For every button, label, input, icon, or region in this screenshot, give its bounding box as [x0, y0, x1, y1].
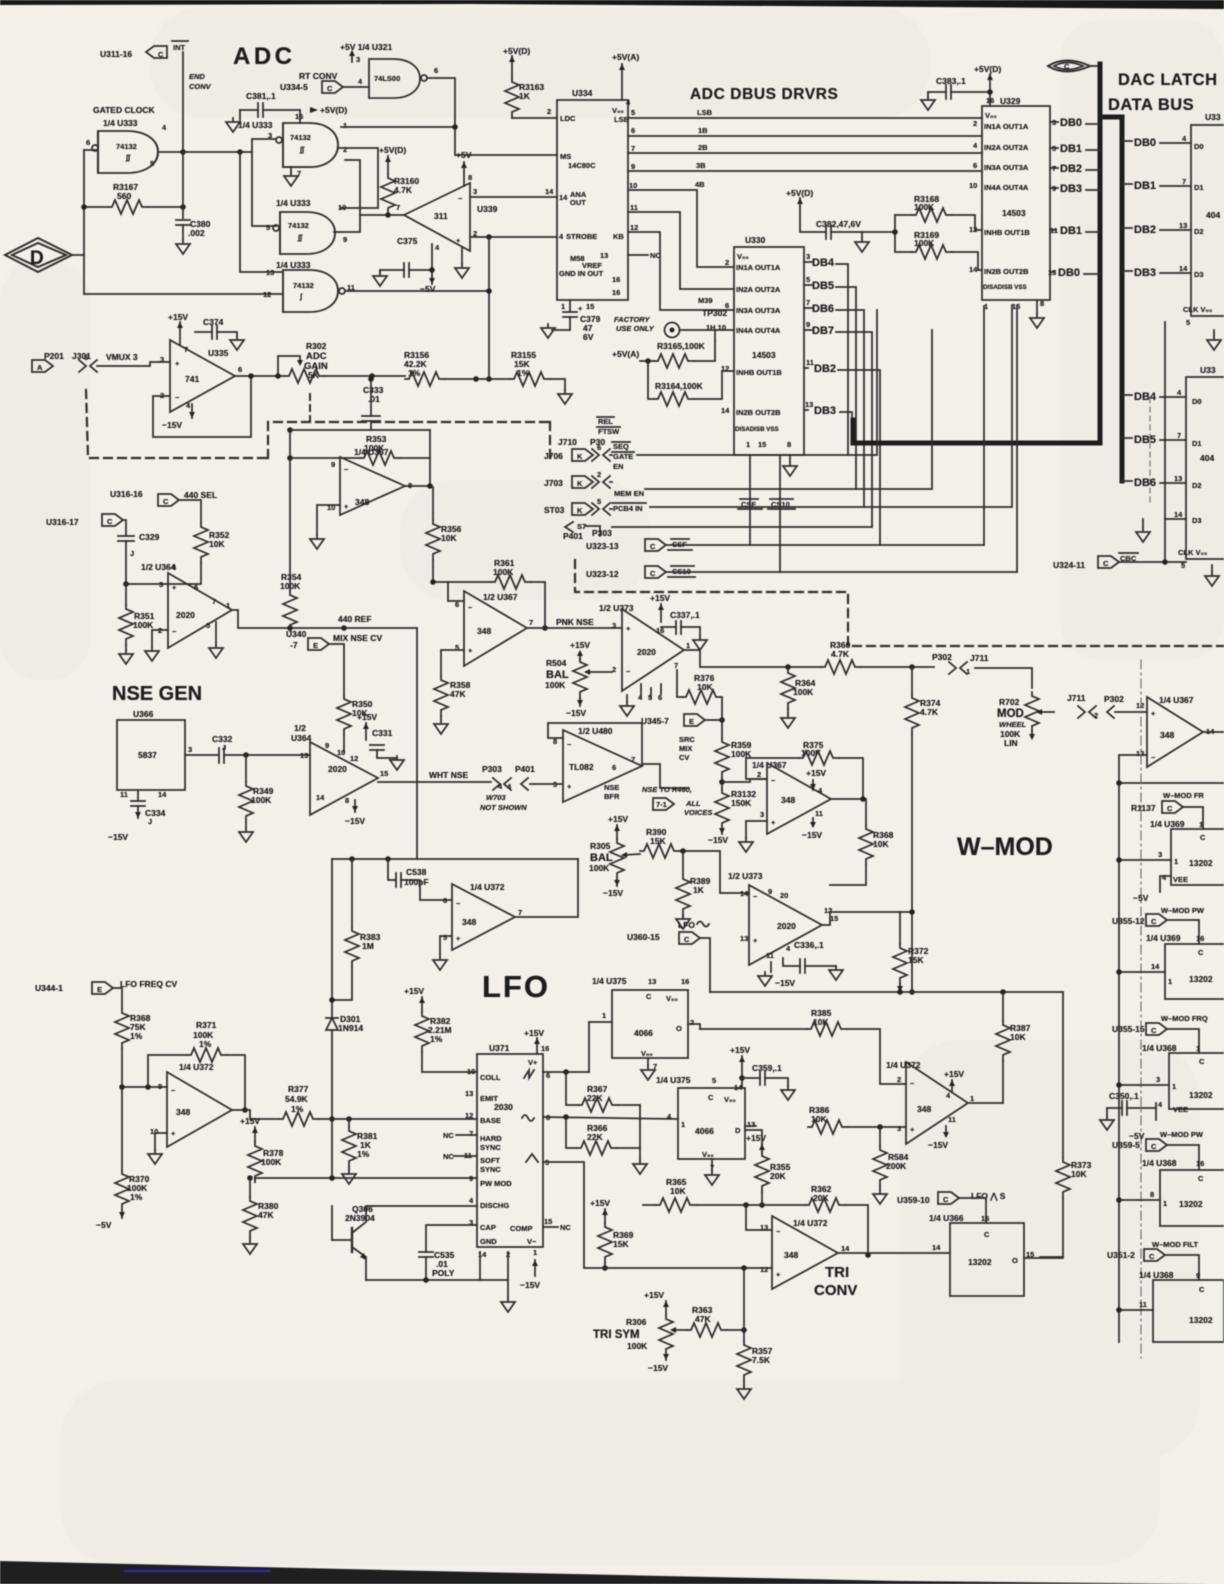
svg-text:4: 4 — [469, 1196, 474, 1205]
svg-text:−: − — [468, 603, 473, 612]
svg-text:47K: 47K — [258, 1210, 274, 1220]
svg-text:+5V 1/4 U321: +5V 1/4 U321 — [340, 42, 392, 52]
ground U372a — [155, 1133, 167, 1150]
wire to +in — [97, 362, 170, 366]
svg-text:1/2 U367: 1/2 U367 — [483, 592, 518, 602]
wire TRI out — [838, 1252, 950, 1254]
svg-text:5: 5 — [206, 621, 210, 630]
svg-text:348: 348 — [462, 917, 476, 927]
svg-text:R302: R302 — [306, 341, 327, 351]
wire row4 input — [1119, 1199, 1160, 1201]
capacitor C538 — [388, 859, 396, 880]
svg-text:IN1A OUT1A: IN1A OUT1A — [984, 122, 1029, 131]
svg-text:3: 3 — [1156, 1075, 1160, 1084]
svg-text:LSB: LSB — [697, 108, 713, 117]
svg-text:NC: NC — [443, 1152, 454, 1161]
svg-text:5: 5 — [150, 159, 154, 168]
svg-text:14: 14 — [841, 1244, 850, 1253]
wire gate2 pin1 to U334 — [341, 126, 455, 128]
wire bus 2B — [628, 152, 982, 154]
svg-text:−15V: −15V — [566, 708, 586, 718]
svg-text:IN3A OUT3A: IN3A OUT3A — [736, 306, 781, 315]
svg-text:CONV: CONV — [814, 1282, 857, 1299]
svg-text:GATE: GATE — [613, 452, 633, 461]
svg-text:C538: C538 — [406, 867, 427, 877]
svg-text:−15V: −15V — [162, 420, 182, 430]
svg-text:1/4 U369: 1/4 U369 — [1146, 933, 1181, 943]
wire -in rail down — [1119, 755, 1147, 1342]
svg-text:7: 7 — [631, 144, 635, 153]
ground C375 — [379, 270, 381, 272]
svg-text:+: + — [1151, 709, 1156, 718]
svg-text:10: 10 — [337, 748, 345, 757]
svg-text:DISADISB VSS: DISADISB VSS — [983, 284, 1027, 291]
wire WHT NSE — [378, 781, 491, 783]
wire DB0 row — [1122, 140, 1132, 142]
svg-text:D0: D0 — [1192, 397, 1202, 406]
svg-text:IN3A OUT3A: IN3A OUT3A — [984, 163, 1029, 172]
feedback rail U367a — [290, 429, 430, 431]
svg-text:14: 14 — [932, 1243, 941, 1252]
svg-text:13: 13 — [600, 251, 608, 260]
svg-text:4: 4 — [786, 944, 791, 953]
svg-text:D: D — [30, 248, 44, 269]
IC 13202 row4 — [1160, 1170, 1224, 1226]
svg-text:+: + — [626, 624, 631, 633]
svg-text:C: C — [107, 517, 113, 526]
svg-text:7: 7 — [1052, 164, 1056, 173]
svg-text:J711: J711 — [970, 653, 989, 663]
svg-text:13: 13 — [1048, 268, 1056, 277]
svg-text:C: C — [1167, 804, 1173, 813]
svg-text:1: 1 — [1163, 1199, 1167, 1208]
resistor R368b — [115, 1009, 129, 1049]
svg-text:V₀₀: V₀₀ — [985, 111, 997, 120]
svg-text:C382,47,6V: C382,47,6V — [816, 219, 861, 229]
svg-text:DB2: DB2 — [1134, 224, 1156, 236]
svg-text:8: 8 — [1040, 299, 1044, 308]
svg-text:C331: C331 — [372, 728, 393, 738]
wire U335 out — [235, 375, 285, 377]
svg-text:E: E — [313, 641, 318, 650]
svg-text:2: 2 — [597, 470, 601, 479]
svg-text:5: 5 — [806, 275, 810, 284]
svg-text:2: 2 — [612, 665, 616, 674]
resistor R371 — [148, 1055, 187, 1087]
svg-text:U316-17: U316-17 — [46, 517, 79, 527]
svg-text:11: 11 — [815, 809, 823, 818]
svg-text:5: 5 — [443, 933, 447, 942]
svg-text:15K: 15K — [613, 1239, 629, 1249]
node D — [5, 238, 72, 272]
svg-text:5: 5 — [266, 223, 270, 232]
svg-text:8: 8 — [1150, 1190, 1154, 1199]
wire row3 input — [1119, 1084, 1169, 1086]
svg-text:12: 12 — [760, 1265, 768, 1274]
bottom band blue mark — [125, 1570, 270, 1572]
svg-text:1/4 U333: 1/4 U333 — [276, 198, 311, 208]
svg-text:DB1: DB1 — [1060, 225, 1082, 237]
svg-text:W703: W703 — [486, 793, 506, 802]
wire DB3 row — [1122, 270, 1132, 272]
svg-text:C350,.1: C350,.1 — [1109, 1091, 1139, 1101]
wire gate4 out — [345, 290, 489, 292]
resistor R584 — [879, 1127, 881, 1146]
svg-text:+15V: +15V — [240, 1116, 260, 1126]
resistor R356 — [432, 487, 434, 520]
svg-text:+: + — [172, 583, 177, 592]
svg-text:−: − — [910, 1079, 915, 1088]
svg-text:10K: 10K — [697, 682, 713, 692]
svg-text:P201: P201 — [44, 351, 64, 361]
svg-text:FACTORY: FACTORY — [614, 315, 651, 324]
power +5V into U321 — [351, 52, 353, 62]
wire D to rail — [72, 254, 84, 256]
gate U333a 74132 — [98, 131, 158, 173]
svg-text:13202: 13202 — [1189, 1090, 1213, 1100]
wire in4a — [714, 330, 716, 341]
svg-text:DB7: DB7 — [812, 325, 834, 337]
svg-text:10: 10 — [338, 203, 346, 212]
svg-text:LDC: LDC — [560, 114, 576, 123]
wire COLL to 4066a — [543, 1071, 589, 1073]
svg-text:END: END — [189, 72, 205, 81]
svg-text:348: 348 — [477, 626, 491, 636]
resistor R3167 — [84, 206, 108, 208]
svg-text:6: 6 — [194, 583, 198, 592]
svg-text:FTSW: FTSW — [598, 427, 620, 436]
svg-text:J706: J706 — [544, 451, 563, 461]
svg-text:8: 8 — [468, 173, 472, 182]
svg-text:3: 3 — [760, 810, 764, 819]
svg-text:U334-5: U334-5 — [280, 82, 308, 92]
svg-text:7: 7 — [396, 203, 400, 212]
svg-text:14503: 14503 — [752, 350, 776, 360]
svg-text:PNK NSE: PNK NSE — [556, 617, 594, 627]
capacitor C535 — [426, 1225, 477, 1252]
node DB7 — [804, 329, 812, 331]
svg-text:100K: 100K — [261, 1157, 282, 1167]
svg-text:6: 6 — [443, 896, 447, 905]
resistor R364 — [781, 669, 795, 709]
svg-text:R3165,100K: R3165,100K — [657, 341, 706, 351]
svg-text:+15V: +15V — [168, 312, 188, 322]
top scan bar — [0, 0, 1224, 9]
svg-text:MIX NSE CV: MIX NSE CV — [333, 633, 382, 643]
svg-text:1: 1 — [1174, 857, 1178, 866]
power -15V U335 — [191, 404, 193, 418]
svg-text:1: 1 — [746, 440, 750, 449]
wire U329 DB0b out — [1050, 271, 1054, 273]
svg-text:C: C — [1151, 1026, 1157, 1035]
wire -in to ground — [152, 630, 168, 647]
svg-text:+15V: +15V — [524, 1028, 544, 1038]
svg-text:R1137: R1137 — [1131, 803, 1156, 813]
svg-text:WHEEL: WHEEL — [999, 720, 1027, 729]
svg-text:V₀₀: V₀₀ — [666, 994, 678, 1003]
svg-text:+: + — [753, 936, 758, 945]
svg-text:5K: 5K — [308, 370, 320, 380]
svg-text:1/4 U366: 1/4 U366 — [929, 1213, 964, 1223]
svg-text:+: + — [468, 646, 473, 655]
svg-text:5: 5 — [1181, 561, 1185, 570]
svg-text:+5V(D): +5V(D) — [786, 188, 813, 198]
svg-text:+15V: +15V — [570, 640, 590, 650]
svg-text:MIX: MIX — [679, 744, 692, 753]
svg-text:V₀₀: V₀₀ — [641, 1049, 653, 1058]
svg-text:16: 16 — [1196, 934, 1204, 943]
node DB3 out2b — [804, 409, 808, 411]
svg-text:DB3: DB3 — [1060, 183, 1082, 195]
svg-text:TP302: TP302 — [702, 308, 727, 318]
power -15V U364b — [354, 800, 356, 812]
resistor R372 — [899, 912, 901, 944]
wire DB5 row — [1122, 437, 1132, 439]
svg-text:EN: EN — [613, 462, 623, 471]
svg-text:14: 14 — [545, 187, 554, 196]
svg-text:VEE: VEE — [1173, 1105, 1188, 1114]
svg-text:C: C — [984, 1230, 990, 1239]
wire gate4 in13 — [240, 152, 283, 272]
svg-text:+15V: +15V — [746, 1133, 766, 1143]
svg-text:100K: 100K — [793, 687, 814, 697]
wire to gain rail — [488, 237, 490, 379]
dashed gain box — [309, 394, 311, 422]
svg-text:D1: D1 — [1194, 183, 1204, 192]
node DB6 — [804, 307, 812, 309]
svg-text:2: 2 — [1094, 711, 1098, 720]
capacitor C380 — [182, 152, 184, 218]
wire bus 1B — [628, 135, 982, 137]
wire +in rail — [543, 1162, 772, 1268]
svg-text:DB1: DB1 — [1134, 180, 1156, 192]
svg-text:404: 404 — [1206, 210, 1220, 220]
resistor R359 — [715, 738, 729, 778]
svg-text:100K: 100K — [545, 680, 566, 690]
svg-text:+5V(A): +5V(A) — [612, 52, 639, 62]
svg-text:74LS00: 74LS00 — [374, 74, 400, 83]
svg-text:−15V: −15V — [708, 835, 728, 845]
svg-text:P303: P303 — [482, 764, 502, 774]
svg-text:4: 4 — [172, 563, 177, 572]
svg-text:5: 5 — [1186, 318, 1190, 327]
svg-text:DB3: DB3 — [814, 405, 836, 417]
power arrow below U332 — [1211, 565, 1213, 572]
svg-text:−: − — [771, 776, 776, 785]
svg-text:J: J — [130, 549, 134, 558]
wire U366 out — [185, 754, 218, 756]
wire bus LSB — [628, 117, 982, 119]
svg-text:C336,.1: C336,.1 — [794, 940, 824, 950]
svg-text:7: 7 — [1182, 177, 1186, 186]
wire U329 DB2 out — [1050, 167, 1058, 169]
svg-text:348: 348 — [176, 1107, 190, 1117]
svg-text:7: 7 — [1177, 431, 1181, 440]
svg-text:2020: 2020 — [328, 764, 347, 774]
svg-text:R702: R702 — [999, 697, 1020, 707]
wire 440 REF — [232, 610, 417, 628]
wire +in ground — [317, 505, 340, 535]
svg-text:MOD: MOD — [997, 708, 1024, 720]
resistor R375 feedback — [746, 758, 799, 779]
svg-text:2N3904: 2N3904 — [345, 1213, 375, 1223]
svg-text:1: 1 — [602, 1011, 606, 1020]
svg-text:DB6: DB6 — [1134, 477, 1156, 489]
svg-text:W–MOD: W–MOD — [957, 833, 1053, 861]
connector S7 P401 — [565, 522, 573, 532]
svg-text:1/4 U372: 1/4 U372 — [179, 1062, 214, 1072]
svg-text:22K: 22K — [587, 1132, 603, 1142]
svg-text:2: 2 — [973, 119, 977, 128]
svg-text:DB1: DB1 — [1060, 143, 1082, 155]
svg-text:10K: 10K — [1010, 1032, 1026, 1042]
wire — [445, 378, 510, 380]
svg-text:150K: 150K — [731, 798, 752, 808]
node DB2 out1b — [804, 367, 808, 369]
svg-text:100pF: 100pF — [404, 877, 429, 887]
svg-text:4: 4 — [1162, 873, 1167, 882]
svg-text:1%: 1% — [130, 1031, 143, 1041]
svg-text:D2: D2 — [1194, 227, 1204, 236]
svg-text:3: 3 — [806, 252, 810, 261]
svg-text:SYNC: SYNC — [480, 1165, 501, 1174]
svg-text:9: 9 — [158, 1082, 162, 1091]
svg-text:KB: KB — [613, 232, 624, 241]
resistor R367 — [566, 1072, 578, 1105]
svg-text:DAC LATCH: DAC LATCH — [1118, 71, 1218, 89]
svg-text:U371: U371 — [489, 1043, 510, 1053]
svg-text:13: 13 — [648, 977, 656, 986]
svg-text:3: 3 — [1158, 850, 1162, 859]
wire U373a out to W-MOD rail — [684, 650, 821, 667]
svg-text:4066: 4066 — [695, 1126, 714, 1136]
capacitor C379 — [569, 300, 571, 312]
svg-text:U360-15: U360-15 — [627, 932, 660, 942]
svg-text:1/4 U368: 1/4 U368 — [1142, 1158, 1177, 1168]
resistor R370 — [115, 1170, 129, 1210]
svg-text:DB0: DB0 — [1134, 137, 1156, 149]
svg-text:GATED CLOCK: GATED CLOCK — [93, 105, 156, 115]
svg-text:741: 741 — [185, 374, 199, 384]
svg-text:−15V: −15V — [648, 1363, 668, 1373]
svg-text:D0: D0 — [1194, 142, 1204, 151]
svg-text:13: 13 — [1174, 474, 1182, 483]
svg-text:5837: 5837 — [138, 750, 157, 760]
svg-text:3: 3 — [473, 187, 477, 196]
wire DB4 row — [1122, 394, 1132, 396]
svg-text:348: 348 — [784, 1250, 798, 1260]
svg-text:+: + — [771, 818, 776, 827]
svg-text:V₀₀: V₀₀ — [724, 1095, 736, 1104]
resistor R381 — [348, 1119, 350, 1127]
svg-text:13202: 13202 — [1189, 974, 1213, 984]
svg-text:U316-16: U316-16 — [110, 489, 143, 499]
svg-text:13: 13 — [465, 1089, 473, 1098]
svg-text:+5V(D): +5V(D) — [503, 46, 530, 56]
svg-text:1: 1 — [681, 1120, 685, 1129]
resistor R366 — [543, 1117, 678, 1119]
svg-text:6: 6 — [631, 126, 635, 135]
svg-text:6: 6 — [455, 600, 459, 609]
svg-text:P401: P401 — [515, 764, 535, 774]
svg-text:BFR: BFR — [604, 792, 620, 801]
svg-text:IN2B OUT2B: IN2B OUT2B — [984, 267, 1029, 276]
svg-text:STROBE: STROBE — [566, 232, 597, 241]
svg-text:U329: U329 — [1000, 96, 1021, 106]
svg-text:7: 7 — [806, 298, 810, 307]
svg-text:DB2: DB2 — [1060, 163, 1082, 175]
svg-text:D: D — [735, 1126, 741, 1135]
svg-text:348: 348 — [355, 497, 369, 507]
svg-text:13202: 13202 — [1189, 1315, 1213, 1325]
svg-text:15: 15 — [830, 914, 838, 923]
svg-text:1: 1 — [533, 1248, 537, 1257]
svg-text:D1: D1 — [1192, 439, 1202, 448]
svg-text:74132: 74132 — [288, 221, 309, 230]
pointer C — [322, 81, 343, 93]
svg-text:P302: P302 — [1104, 694, 1124, 704]
svg-text:+15V: +15V — [944, 1069, 964, 1079]
svg-text:NC: NC — [560, 1223, 571, 1232]
svg-text:12: 12 — [263, 290, 271, 299]
svg-text:C359,.1: C359,.1 — [752, 1063, 782, 1073]
ground — [176, 240, 190, 254]
wire DB6 row — [1122, 480, 1132, 482]
ground pin5 — [215, 622, 217, 644]
svg-text:DISCHG: DISCHG — [480, 1201, 509, 1210]
wire PNK NSE — [527, 627, 622, 629]
svg-text:V₀₀: V₀₀ — [702, 1150, 714, 1159]
svg-text:10K: 10K — [670, 1186, 686, 1196]
pin NC — [628, 254, 648, 256]
svg-text:+: + — [344, 502, 349, 511]
svg-text:+5V(D): +5V(D) — [320, 105, 347, 115]
svg-text:16: 16 — [541, 1044, 549, 1053]
wire gate3 input — [252, 152, 276, 226]
wire U367c out — [831, 799, 866, 825]
svg-text:−: − — [567, 740, 572, 749]
svg-text:11: 11 — [948, 1115, 956, 1124]
svg-text:5: 5 — [631, 108, 635, 117]
svg-text:−: − — [344, 465, 349, 474]
svg-text:14: 14 — [969, 265, 978, 274]
svg-text:1/4 U369: 1/4 U369 — [1150, 819, 1185, 829]
svg-text:100K: 100K — [627, 1341, 648, 1351]
svg-text:LFO: LFO — [482, 969, 550, 1004]
svg-text:C: C — [1064, 62, 1070, 71]
svg-text:14: 14 — [1151, 962, 1160, 971]
svg-text:MEM EN: MEM EN — [614, 489, 644, 498]
svg-text:C: C — [1199, 1285, 1205, 1294]
resistor R389 — [682, 851, 684, 875]
wire thick data bus 1 — [853, 64, 1100, 443]
ground U367c — [746, 821, 767, 838]
svg-text:+15V: +15V — [404, 986, 424, 996]
svg-text:11: 11 — [630, 203, 638, 212]
svg-text:2: 2 — [343, 145, 347, 154]
wire bottom to gate4 — [84, 293, 283, 295]
svg-text:440 SEL: 440 SEL — [184, 490, 217, 500]
op-amp U335 — [170, 340, 235, 412]
svg-text:O: O — [676, 1024, 682, 1033]
resistor R387 — [1002, 992, 1004, 1021]
wire to U330 in3a M39 — [628, 232, 734, 310]
svg-text:14: 14 — [1174, 510, 1183, 519]
svg-text:12: 12 — [630, 223, 638, 232]
svg-text:6: 6 — [84, 353, 88, 362]
svg-text:10: 10 — [969, 181, 977, 190]
svg-text:1/2 U480: 1/2 U480 — [578, 726, 613, 736]
